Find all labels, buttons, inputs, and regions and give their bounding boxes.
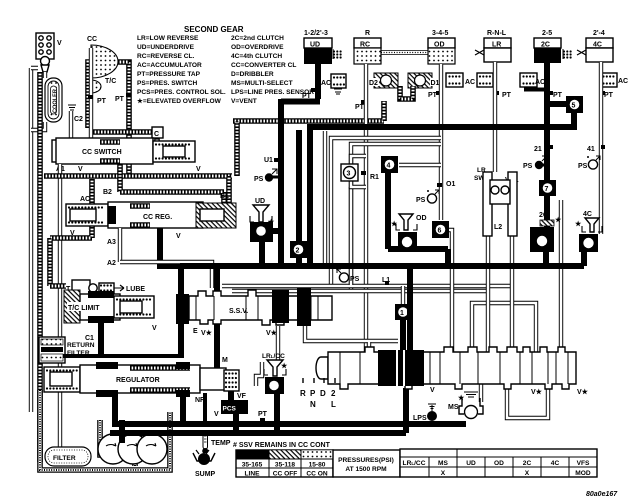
bottom black run B <box>110 388 406 433</box>
wire UD feed <box>281 63 320 266</box>
svg-text:6: 6 <box>438 228 442 235</box>
apply table <box>400 449 597 477</box>
valve S.S.V. <box>176 288 332 337</box>
svg-text:21: 21 <box>534 146 542 153</box>
LR SW VAL <box>474 167 519 236</box>
svg-text:PT: PT <box>115 96 125 103</box>
svg-text:AC: AC <box>80 196 90 203</box>
svg-text:V=VENT: V=VENT <box>231 98 257 105</box>
wire R1 to header <box>349 187 353 285</box>
svg-text:PS: PS <box>254 176 264 183</box>
svg-text:35-165: 35-165 <box>242 462 263 469</box>
wire second gray header <box>232 289 488 293</box>
svg-text:V: V <box>57 40 62 47</box>
pressure switch PS (O1) <box>416 181 455 204</box>
wire node 4 drop <box>388 172 448 249</box>
svg-text:2C: 2C <box>523 460 532 467</box>
svg-text:CC: CC <box>87 36 97 43</box>
wire main line right riser <box>571 108 577 127</box>
wire 2C loop down to valve <box>559 200 563 352</box>
wire spare feed <box>323 131 327 264</box>
svg-text:V: V <box>176 233 181 240</box>
T/C LIMIT valve <box>64 290 157 332</box>
svg-text:R: R <box>300 389 306 398</box>
REGULATOR valve <box>44 357 228 424</box>
svg-text:V: V <box>152 325 157 332</box>
svg-text:CC REG.: CC REG. <box>143 214 172 221</box>
svg-text:PT: PT <box>355 104 365 111</box>
svg-text:V★: V★ <box>266 329 278 337</box>
svg-text:M: M <box>222 357 228 364</box>
svg-text:UD: UD <box>310 42 320 49</box>
svg-text:2C=2nd CLUTCH: 2C=2nd CLUTCH <box>231 35 284 42</box>
svg-text:D: D <box>320 389 326 398</box>
svg-text:V: V <box>214 411 219 418</box>
wire stub to valve port <box>367 342 371 352</box>
hatched supply line left edge <box>37 72 43 462</box>
pump circles <box>98 434 167 464</box>
svg-text:PCS=PRES. CONTROL SOL.: PCS=PRES. CONTROL SOL. <box>137 89 226 96</box>
svg-text:CC=CONVERTER CL: CC=CONVERTER CL <box>231 62 296 69</box>
wire vent to cooler <box>43 72 47 78</box>
svg-text:MOD: MOD <box>575 470 591 477</box>
svg-text:X: X <box>441 470 446 477</box>
wire OD line down <box>439 64 443 220</box>
svg-text:3: 3 <box>347 171 351 178</box>
svg-text:LRL/CC: LRL/CC <box>262 353 285 360</box>
svg-text:D=DRIBBLER: D=DRIBBLER <box>231 71 274 78</box>
svg-text:FILTER: FILTER <box>53 455 76 462</box>
svg-text:SUMP: SUMP <box>195 471 216 478</box>
vent + C2 label <box>68 105 83 140</box>
vent manifold top-left <box>36 33 62 72</box>
torque converter T/C box <box>88 45 131 176</box>
dotted link RC-OD <box>381 51 428 55</box>
svg-text:RC=REVERSE CL.: RC=REVERSE CL. <box>137 53 195 60</box>
svg-text:MS: MS <box>438 460 448 467</box>
solenoid LRL/CC <box>256 353 288 433</box>
valve manual (selector) <box>300 347 589 409</box>
accumulator AC of CC REG <box>66 196 108 237</box>
svg-text:AC: AC <box>535 79 545 86</box>
svg-text:PS: PS <box>416 197 426 204</box>
solenoid OD <box>391 214 448 266</box>
svg-text:COOLER: COOLER <box>53 89 59 113</box>
svg-text:V: V <box>78 166 83 173</box>
clutch LR <box>475 30 511 62</box>
legend right column <box>231 35 314 105</box>
svg-text:41: 41 <box>587 146 595 153</box>
svg-text:V: V <box>70 230 75 237</box>
wire RC line down to manual valve <box>364 64 368 355</box>
svg-text:V: V <box>196 166 201 173</box>
main pressure line <box>307 124 577 130</box>
svg-text:A2: A2 <box>107 260 116 267</box>
svg-text:AC: AC <box>321 80 331 87</box>
svg-text:PS: PS <box>350 276 360 283</box>
svg-text:A3: A3 <box>107 239 116 246</box>
svg-text:★: ★ <box>575 220 582 228</box>
svg-text:C1: C1 <box>85 335 94 342</box>
svg-text:LINE: LINE <box>244 471 260 478</box>
node 4 <box>381 156 398 173</box>
svg-text:CC SWITCH: CC SWITCH <box>82 149 122 156</box>
svg-text:U1: U1 <box>264 157 273 164</box>
wire M riser <box>214 266 220 368</box>
svg-text:LPS: LPS <box>413 415 427 422</box>
pressures note box <box>333 450 400 477</box>
svg-text:# SSV REMAINS IN CC CONT: # SSV REMAINS IN CC CONT <box>233 442 331 449</box>
svg-text:MS: MS <box>448 404 459 411</box>
svg-text:2'-4: 2'-4 <box>593 30 605 37</box>
wire SSV to node 1 <box>305 326 398 341</box>
svg-text:AC: AC <box>618 78 628 85</box>
wire main line left drop <box>307 127 313 263</box>
wire node 1 to valve <box>400 320 406 355</box>
pressure switch PS (UD) <box>254 169 281 183</box>
node 2 <box>296 130 302 264</box>
svg-text:RETURN: RETURN <box>67 342 95 349</box>
wire elbow to valve top <box>472 303 536 352</box>
wire LR SW rails to valve <box>488 236 512 352</box>
svg-text:D2: D2 <box>369 80 378 87</box>
svg-text:N: N <box>310 400 316 409</box>
node 6 <box>432 221 449 238</box>
svg-text:LRL/CC: LRL/CC <box>403 460 426 467</box>
svg-text:O1: O1 <box>446 181 455 188</box>
svg-text:OD: OD <box>494 460 504 467</box>
svg-text:2: 2 <box>331 389 336 398</box>
wire big feed to valve <box>407 266 413 360</box>
svg-text:PT=PRESSURE TAP: PT=PRESSURE TAP <box>137 71 201 78</box>
main bottom line <box>180 263 584 269</box>
svg-text:★: ★ <box>281 362 288 370</box>
svg-text:R1: R1 <box>370 174 379 181</box>
svg-text:35-118: 35-118 <box>275 462 296 469</box>
accumulator AC (OD) <box>446 73 475 87</box>
solenoid UD <box>250 198 281 263</box>
svg-text:PT: PT <box>258 411 268 418</box>
svg-text:PRESSURES(PSI): PRESSURES(PSI) <box>338 457 394 464</box>
clutch UD <box>304 30 342 64</box>
svg-text:PT: PT <box>97 98 107 105</box>
svg-text:CC OFF: CC OFF <box>273 471 298 478</box>
TEMP thermometer <box>202 433 231 454</box>
sensor LPS <box>413 404 437 422</box>
RETURN FILTER <box>39 324 184 363</box>
svg-text:T/C LIMIT: T/C LIMIT <box>68 305 100 312</box>
svg-text:4C=4th CLUTCH: 4C=4th CLUTCH <box>231 53 282 60</box>
B2 drop to CC REG <box>120 164 224 203</box>
hatched line under CC SWITCH <box>44 176 232 286</box>
svg-text:L2: L2 <box>494 224 502 231</box>
node 3 <box>341 164 358 181</box>
wire node 4 to O1 <box>399 163 441 167</box>
wire E drop <box>178 266 184 294</box>
cooler return line down left edge <box>29 68 33 412</box>
node 1 <box>395 304 411 320</box>
svg-text:MS=MULTI-SELECT: MS=MULTI-SELECT <box>231 80 293 87</box>
svg-text:15-80: 15-80 <box>309 462 326 469</box>
svg-text:PT: PT <box>502 92 512 99</box>
black C1 drop from T/C LIMIT <box>98 323 104 358</box>
solenoid 2C <box>530 196 562 266</box>
wire node 6 branch down <box>449 230 452 352</box>
dribbler D2 <box>368 73 398 88</box>
pressure legend table <box>236 450 333 478</box>
wire node 5 to 2C line <box>549 101 566 107</box>
svg-text:CC ON: CC ON <box>306 471 327 478</box>
svg-text:X: X <box>525 470 530 477</box>
svg-text:★: ★ <box>391 220 398 228</box>
svg-text:S.S.V.: S.S.V. <box>229 308 248 315</box>
accumulator AC (2C) <box>520 73 547 90</box>
node 5 <box>566 96 583 113</box>
wire A2 run <box>120 262 212 288</box>
thick black CC REG output <box>160 228 343 266</box>
svg-text:1-2/2'-3: 1-2/2'-3 <box>304 30 328 37</box>
svg-text:7: 7 <box>545 186 549 193</box>
svg-text:5: 5 <box>572 103 576 110</box>
svg-text:V: V <box>430 387 435 394</box>
svg-text:V★: V★ <box>201 329 213 337</box>
solenoid 4C <box>575 211 602 266</box>
pressure switch PS (4C) <box>578 156 600 170</box>
legend left column <box>137 35 226 105</box>
pump feed thick line <box>119 420 125 443</box>
svg-text:2C: 2C <box>539 212 548 219</box>
svg-text:PCS: PCS <box>223 406 237 413</box>
svg-text:SECOND GEAR: SECOND GEAR <box>184 25 244 34</box>
svg-text:VFS: VFS <box>577 460 590 467</box>
svg-text:V★: V★ <box>577 388 589 396</box>
svg-text:4C: 4C <box>583 211 592 218</box>
wire node 1 riser <box>401 286 405 304</box>
wire OD branch to SSV <box>331 138 441 285</box>
wire SSV to LRL/CC solenoid <box>276 326 280 360</box>
wire OD branch second <box>351 144 441 291</box>
wire MS riser <box>479 384 483 402</box>
svg-text:2: 2 <box>296 248 300 255</box>
clutch 2C <box>534 30 572 63</box>
svg-text:PS: PS <box>578 163 588 170</box>
svg-text:★: ★ <box>555 216 562 224</box>
wire LR line down <box>493 62 497 172</box>
svg-text:B2: B2 <box>103 189 112 196</box>
node 7 <box>539 180 556 196</box>
svg-text:PT: PT <box>604 92 614 99</box>
svg-text:1: 1 <box>400 310 404 317</box>
svg-text:PS=PRES. SWITCH: PS=PRES. SWITCH <box>137 80 198 87</box>
svg-text:R: R <box>365 30 370 37</box>
svg-text:OD: OD <box>416 215 427 222</box>
cooler <box>45 78 62 122</box>
A3 A2 lines <box>118 228 122 262</box>
svg-text:LR=LOW REVERSE: LR=LOW REVERSE <box>137 35 199 42</box>
svg-text:PT: PT <box>553 92 563 99</box>
bottom black run A <box>112 391 466 424</box>
letters R P D2 N L <box>300 378 336 409</box>
svg-text:C: C <box>154 131 159 138</box>
wire 2C feed <box>544 63 550 183</box>
accumulator AC (LR) <box>477 73 493 87</box>
CC line inside T/C <box>89 48 93 140</box>
svg-text:C2: C2 <box>74 116 83 123</box>
accumulator AC (4C) <box>600 73 628 87</box>
LUBE tap <box>66 280 145 296</box>
svg-text:AT 1500 RPM: AT 1500 RPM <box>345 466 387 473</box>
accumulator AC (UD) <box>321 74 346 94</box>
svg-text:AC: AC <box>465 79 475 86</box>
svg-text:P: P <box>310 389 316 398</box>
svg-text:4: 4 <box>387 163 391 170</box>
svg-text:E: E <box>193 328 198 335</box>
svg-text:2C: 2C <box>541 42 550 49</box>
clutch OD <box>428 30 455 64</box>
wire exhaust U loop <box>507 384 548 418</box>
solenoid MS multi-select <box>448 392 483 419</box>
FILTER capsule <box>45 447 91 466</box>
wire main gray header <box>222 284 512 288</box>
CC REG valve <box>108 202 236 240</box>
svg-text:OD=OVERDRIVE: OD=OVERDRIVE <box>231 44 284 51</box>
CC SWITCH valve <box>52 138 201 173</box>
svg-text:4C: 4C <box>551 460 560 467</box>
pressure switch PS (2C) <box>523 156 547 170</box>
svg-text:R-N-L: R-N-L <box>487 30 507 37</box>
svg-text:VF: VF <box>237 393 247 400</box>
svg-text:★=ELEVATED OVERFLOW: ★=ELEVATED OVERFLOW <box>137 97 222 105</box>
node 3 loop <box>351 156 366 187</box>
svg-text:REGULATOR: REGULATOR <box>116 377 160 384</box>
svg-text:LUBE: LUBE <box>126 286 145 293</box>
svg-text:3-4-5: 3-4-5 <box>432 30 448 37</box>
wire dribbler hatched loop <box>400 86 413 99</box>
svg-text:B1: B1 <box>220 193 229 200</box>
svg-text:TEMP: TEMP <box>211 440 231 447</box>
svg-text:V★: V★ <box>531 388 543 396</box>
svg-text:UD=UNDERDRIVE: UD=UNDERDRIVE <box>137 44 195 51</box>
A1 line down <box>58 164 62 460</box>
wire hatched reverse band <box>233 101 384 176</box>
dribbler D1 <box>408 73 441 88</box>
clutch RC <box>354 30 381 64</box>
C port box <box>93 127 163 146</box>
SUMP cup <box>193 450 216 478</box>
svg-text:UD: UD <box>255 198 265 205</box>
svg-text:AC=ACCUMULATOR: AC=ACCUMULATOR <box>137 62 202 69</box>
svg-text:2-5: 2-5 <box>542 30 552 37</box>
svg-text:D1: D1 <box>431 80 440 87</box>
svg-text:UD: UD <box>466 460 476 467</box>
svg-text:80a0e167: 80a0e167 <box>586 491 618 498</box>
pressure switch PS (L1 area) <box>336 268 360 283</box>
sump region dotted border <box>40 390 170 470</box>
svg-text:L: L <box>331 400 336 409</box>
svg-text:PS: PS <box>523 163 533 170</box>
wire 4C line down <box>599 62 603 234</box>
clutch 4C <box>577 30 613 62</box>
VF + PCS <box>214 370 268 422</box>
svg-text:T/C: T/C <box>105 78 116 85</box>
